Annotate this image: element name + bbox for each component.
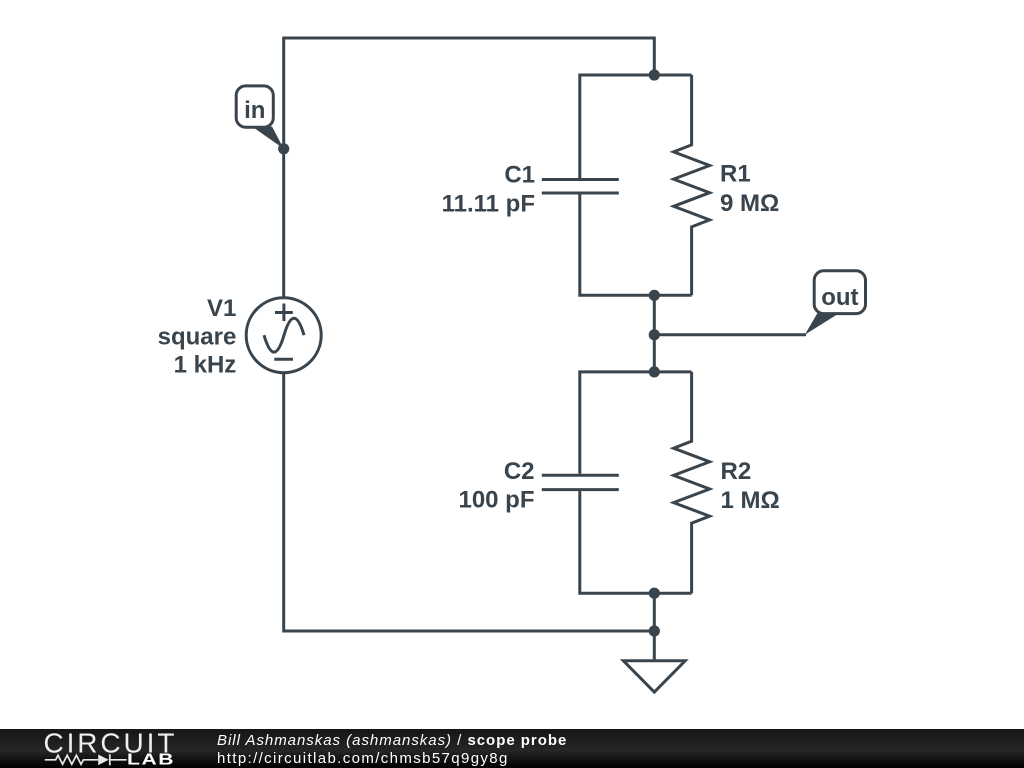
- svg-text:C2: C2: [504, 458, 535, 485]
- svg-text:9 MΩ: 9 MΩ: [720, 190, 779, 217]
- svg-text:LAB: LAB: [127, 750, 175, 768]
- svg-text:V1: V1: [207, 295, 236, 322]
- svg-text:100 pF: 100 pF: [458, 487, 534, 514]
- svg-text:1 MΩ: 1 MΩ: [721, 487, 780, 514]
- svg-text:out: out: [821, 284, 858, 311]
- svg-text:square: square: [158, 323, 237, 350]
- svg-text:R2: R2: [721, 458, 752, 485]
- svg-text:1 kHz: 1 kHz: [174, 352, 237, 379]
- svg-text:in: in: [244, 97, 265, 124]
- svg-text:R1: R1: [720, 161, 751, 188]
- svg-text:C1: C1: [504, 162, 535, 189]
- svg-text:11.11 pF: 11.11 pF: [442, 190, 535, 217]
